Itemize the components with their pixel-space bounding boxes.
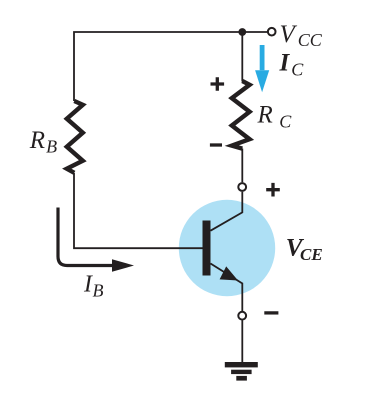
svg-text:RB: RB xyxy=(29,127,57,157)
svg-text:IB: IB xyxy=(83,272,104,301)
svg-text:VCC: VCC xyxy=(280,21,323,50)
svg-text:VCE: VCE xyxy=(286,235,323,265)
svg-text:RC: RC xyxy=(257,102,293,132)
svg-text:IC: IC xyxy=(279,50,305,80)
